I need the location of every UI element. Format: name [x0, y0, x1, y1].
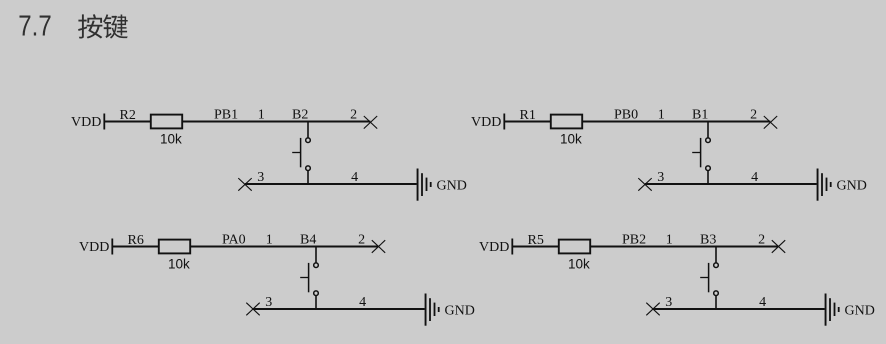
button B4 top contact circle: [314, 263, 319, 268]
button B3 actuator tick: [700, 277, 708, 279]
no-connect X on pin 2: [372, 240, 385, 253]
wire pin 3 to ground: [245, 183, 417, 185]
svg-text:10k: 10k: [160, 131, 182, 146]
ground symbol dash: [430, 182, 432, 187]
ground symbol bar 2: [421, 173, 423, 196]
svg-text:VDD: VDD: [471, 115, 501, 130]
power symbol VDD bar: [511, 239, 513, 255]
svg-text:VDD: VDD: [71, 115, 101, 130]
svg-text:PB2: PB2: [622, 233, 646, 248]
button B1 bottom terminal stub: [707, 171, 709, 184]
no-connect X on pin 3: [646, 303, 659, 316]
ground symbol dash: [830, 182, 832, 187]
no-connect X on pin 3: [246, 303, 259, 316]
power symbol VDD bar: [111, 239, 113, 255]
wire resistor to pin 2, net PA0: [190, 246, 378, 248]
svg-text:GND: GND: [845, 304, 875, 319]
wire pin 3 to ground: [253, 308, 425, 310]
ground symbol bar 3: [834, 303, 836, 316]
svg-text:GND: GND: [437, 179, 467, 194]
button B2 actuator bar: [300, 138, 302, 167]
svg-text:VDD: VDD: [479, 240, 509, 255]
svg-text:R2: R2: [120, 108, 136, 123]
button B1 actuator tick: [692, 152, 700, 154]
no-connect X on pin 3: [638, 178, 651, 191]
svg-text:1: 1: [258, 108, 265, 123]
svg-text:10k: 10k: [168, 256, 190, 271]
button B1 top terminal stub: [707, 122, 709, 138]
ground symbol bar 3: [426, 178, 428, 191]
svg-text:B4: B4: [300, 233, 316, 248]
svg-text:7.7: 7.7: [18, 10, 51, 42]
button B2 bottom contact circle: [306, 166, 311, 171]
svg-text:10k: 10k: [560, 131, 582, 146]
button B3 actuator bar: [708, 263, 710, 292]
svg-text:1: 1: [666, 233, 673, 248]
button B4 bottom terminal stub: [315, 296, 317, 309]
no-connect X on pin 2: [364, 116, 377, 129]
ground symbol bar 1: [825, 294, 827, 326]
ground symbol bar 1: [425, 294, 427, 326]
svg-text:4: 4: [359, 295, 366, 310]
wire pin 3 to ground: [645, 183, 817, 185]
button B3 bottom terminal stub: [715, 296, 717, 309]
svg-text:PA0: PA0: [222, 233, 246, 248]
svg-text:PB0: PB0: [614, 108, 638, 123]
power symbol VDD bar: [103, 114, 105, 130]
svg-text:B3: B3: [700, 233, 716, 248]
button B2 bottom terminal stub: [307, 171, 309, 184]
wire VDD to resistor R6: [113, 246, 159, 248]
wire resistor to pin 2, net PB1: [182, 121, 370, 123]
no-connect X on pin 2: [772, 240, 785, 253]
button B2 actuator tick: [292, 152, 300, 154]
svg-text:4: 4: [351, 170, 358, 185]
wire VDD to resistor R1: [505, 121, 551, 123]
ground symbol bar 1: [417, 169, 419, 201]
button B2 top contact circle: [306, 138, 311, 143]
svg-text:2: 2: [358, 233, 365, 248]
resistor R6 body: [159, 240, 190, 254]
ground symbol bar 3: [826, 178, 828, 191]
button B3 bottom contact circle: [714, 291, 719, 296]
svg-text:1: 1: [266, 233, 273, 248]
resistor R1 body: [551, 115, 582, 129]
resistor R2 body: [151, 115, 182, 129]
button B1 bottom contact circle: [706, 166, 711, 171]
svg-text:4: 4: [751, 170, 758, 185]
ground symbol dash: [438, 307, 440, 312]
button B4 actuator tick: [300, 277, 308, 279]
ground symbol bar 3: [434, 303, 436, 316]
wire resistor to pin 2, net PB0: [582, 121, 770, 123]
button B1 actuator bar: [700, 138, 702, 167]
svg-text:R6: R6: [128, 233, 144, 248]
button B4 bottom contact circle: [314, 291, 319, 296]
button B2 top terminal stub: [307, 122, 309, 138]
title text 键 (button heading char 2): [103, 14, 128, 38]
button B3 top terminal stub: [715, 247, 717, 263]
ground symbol dash: [838, 307, 840, 312]
svg-text:2: 2: [758, 233, 765, 248]
svg-text:1: 1: [658, 108, 665, 123]
button B1 top contact circle: [706, 138, 711, 143]
ground symbol bar 2: [429, 298, 431, 321]
ground symbol bar 2: [829, 298, 831, 321]
wire VDD to resistor R5: [513, 246, 559, 248]
svg-text:B2: B2: [292, 108, 308, 123]
svg-text:10k: 10k: [568, 256, 590, 271]
svg-text:3: 3: [265, 295, 272, 310]
svg-text:3: 3: [665, 295, 672, 310]
resistor R5 body: [559, 240, 590, 254]
svg-text:B1: B1: [692, 108, 708, 123]
svg-text:PB1: PB1: [214, 108, 238, 123]
svg-text:GND: GND: [837, 179, 867, 194]
power symbol VDD bar: [503, 114, 505, 130]
no-connect X on pin 2: [764, 116, 777, 129]
svg-text:3: 3: [657, 170, 664, 185]
button B3 top contact circle: [714, 263, 719, 268]
wire resistor to pin 2, net PB2: [590, 246, 778, 248]
ground symbol bar 1: [817, 169, 819, 201]
svg-text:R5: R5: [528, 233, 544, 248]
svg-text:R1: R1: [520, 108, 536, 123]
button B4 actuator bar: [308, 263, 310, 292]
svg-text:VDD: VDD: [79, 240, 109, 255]
button B4 top terminal stub: [315, 247, 317, 263]
svg-text:2: 2: [750, 108, 757, 123]
svg-text:3: 3: [257, 170, 264, 185]
no-connect X on pin 3: [238, 178, 251, 191]
svg-text:4: 4: [759, 295, 766, 310]
title text 按 (button heading char 1): [78, 14, 102, 38]
wire VDD to resistor R2: [105, 121, 151, 123]
ground symbol bar 2: [821, 173, 823, 196]
svg-text:GND: GND: [445, 304, 475, 319]
svg-text:2: 2: [350, 108, 357, 123]
wire pin 3 to ground: [653, 308, 825, 310]
